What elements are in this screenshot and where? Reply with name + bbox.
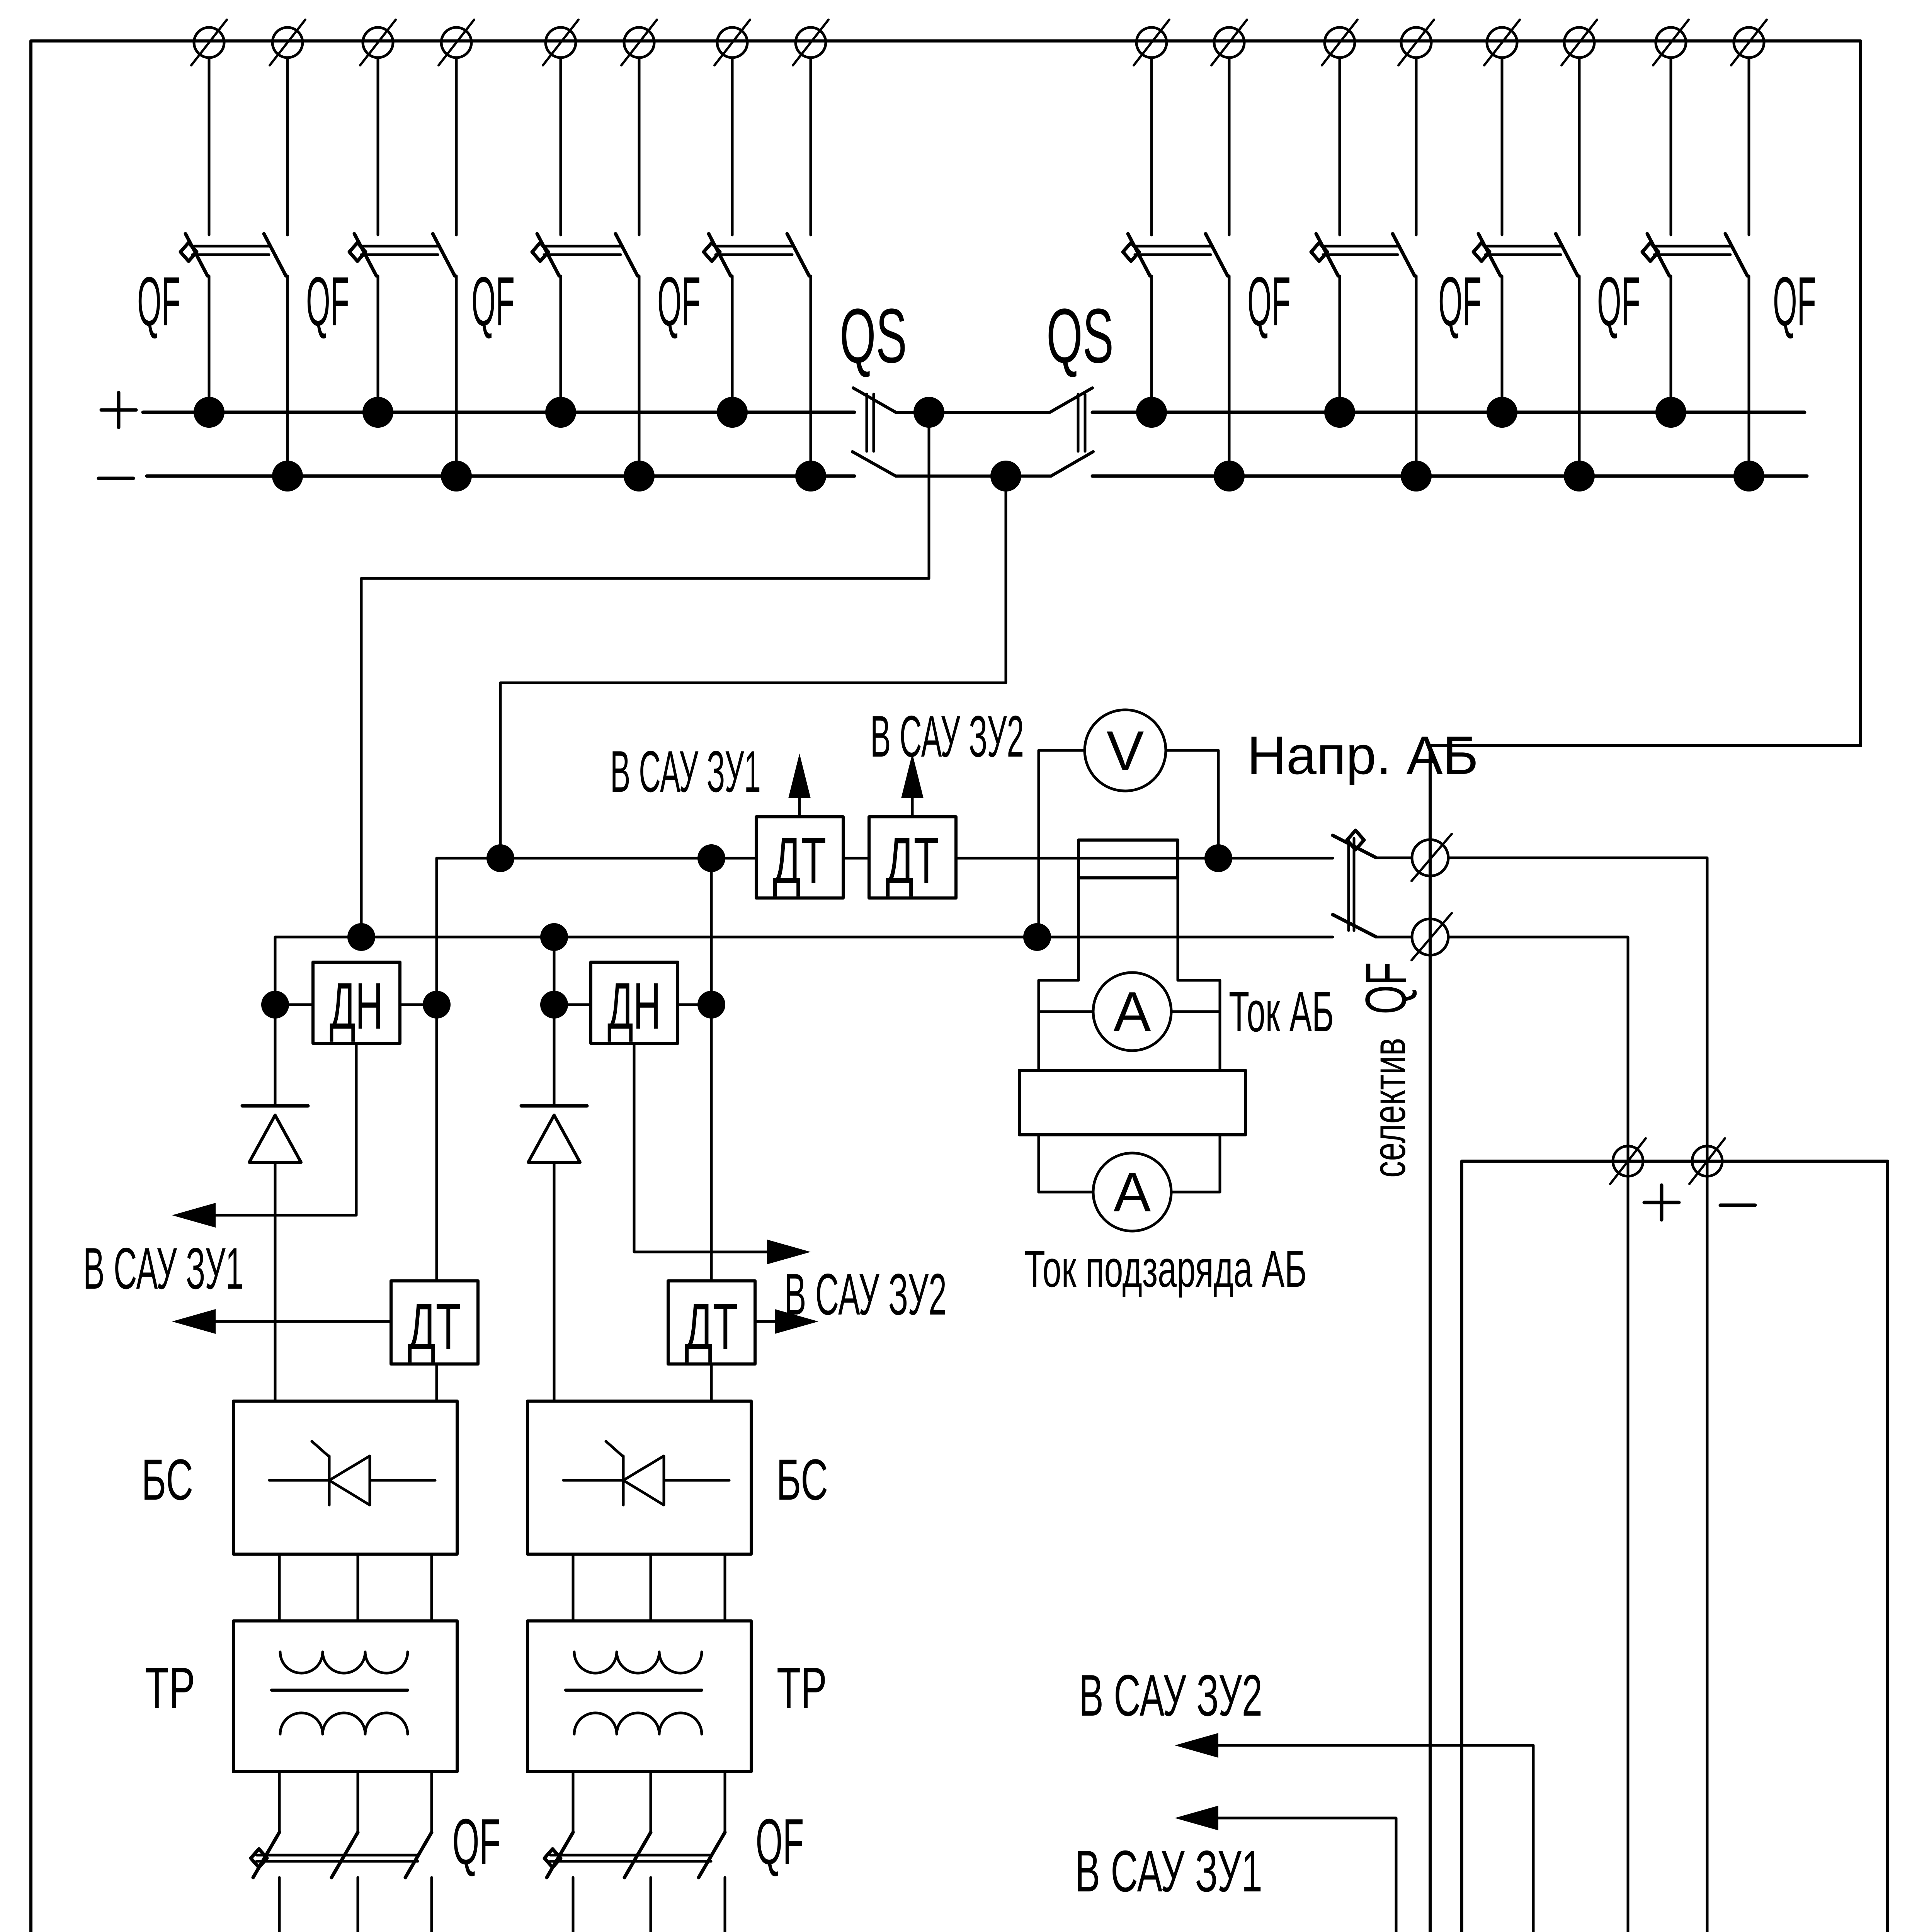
svg-text:ДН: ДН: [607, 969, 661, 1043]
svg-text:V: V: [1107, 719, 1144, 782]
ammeter A (battery current): [1039, 973, 1220, 1051]
svg-text:QF: QF: [1438, 263, 1482, 340]
terminal (outgoing line 7, + pole): [1484, 20, 1520, 65]
wire terminal to breaker (line 8 + pole): [1670, 58, 1672, 235]
wire terminal to breaker (line 6 - pole): [1415, 58, 1418, 235]
wire minus bus to charger output wire A: [500, 476, 1006, 858]
wire terminal to breaker (line 4 + pole): [731, 58, 734, 235]
minus sign of bus: [99, 477, 133, 480]
svg-text:QF: QF: [452, 1805, 501, 1878]
svg-text:QS: QS: [840, 293, 907, 379]
arrow to SAU ZU1 (lower): [172, 1309, 216, 1334]
svg-text:В САУ ЗУ1: В САУ ЗУ1: [83, 1236, 243, 1301]
wire battery plus feed: [1448, 937, 1628, 1932]
plus bus (+): [143, 411, 854, 414]
node on minus bus (line 3): [624, 461, 655, 492]
wire plus bus to charger output wire B: [361, 412, 929, 937]
wire B: charger output lower rail: [275, 936, 1333, 939]
svg-text:QS: QS: [1046, 293, 1114, 379]
svg-text:В САУ ЗУ1: В САУ ЗУ1: [610, 739, 761, 804]
circuit breaker QF (feeder 3, two-pole): [532, 234, 638, 276]
arrow to SAU ZU2 (lower): [775, 1309, 818, 1334]
node on minus bus (line 7): [1564, 461, 1595, 492]
wires breaker to AVR (charger2): [572, 1878, 575, 1932]
plus sign (battery cabinet entry): [1644, 1201, 1679, 1204]
winding primary ТР1: [280, 1652, 408, 1673]
terminal (outgoing line 7, - pole): [1561, 20, 1597, 65]
rectifier block БС1: [233, 1401, 457, 1554]
node wire B / charger2 riser: [540, 923, 568, 951]
node DN1 right lead: [423, 991, 451, 1019]
wire DT1 output left: [216, 1320, 391, 1323]
svg-text:QF: QF: [471, 263, 515, 340]
wire terminal to breaker (line 5 - pole): [1228, 58, 1231, 235]
wire breaker to plus bus (line 7): [1501, 276, 1504, 412]
svg-text:ДН: ДН: [330, 969, 383, 1043]
ammeter A (battery recharge current): [1039, 1153, 1220, 1231]
svg-text:БС: БС: [776, 1447, 828, 1512]
wire A: charger output upper rail: [437, 857, 756, 860]
minus sign (battery cabinet entry): [1720, 1204, 1755, 1207]
node DN2 left lead: [540, 991, 568, 1019]
winding primary ТР2: [574, 1652, 702, 1673]
arrow to SAU ZU1 (upper): [172, 1203, 216, 1228]
node on minus bus (line 8): [1733, 461, 1764, 492]
wire terminal to breaker (line 3 + pole): [560, 58, 562, 235]
minus bus (-): [147, 474, 854, 478]
arrow up to SAU ZU2: [901, 753, 924, 798]
wires BS1 to TR1 (3 phases): [278, 1554, 281, 1621]
wire DN2 output down: [634, 1043, 768, 1252]
wire breaker to minus bus (line 8): [1748, 276, 1750, 476]
wire breaker to plus bus (line 3): [560, 276, 562, 412]
wires BS2 to TR2 (3 phases): [572, 1554, 575, 1621]
node on minus bus (line 5): [1214, 461, 1245, 492]
terminal (outgoing line 5, + pole): [1134, 20, 1169, 65]
terminal (outgoing line 4, + pole): [714, 20, 750, 65]
node on plus bus (line 6): [1324, 397, 1355, 428]
arrow up to SAU ZU1: [788, 753, 811, 798]
rectifier block БС2: [527, 1401, 751, 1554]
node on plus bus (line 2): [362, 397, 393, 428]
core line ТР2: [566, 1689, 702, 1692]
wires TR2 to breaker: [572, 1772, 575, 1832]
svg-text:ДТ: ДТ: [408, 1290, 461, 1364]
wire voltmeter right lead: [1166, 750, 1218, 858]
wire DT up to arrow: [911, 797, 914, 817]
wire terminal to breaker (line 4 - pole): [810, 58, 812, 235]
wire terminal to breaker (line 5 + pole): [1150, 58, 1153, 235]
svg-text:QF: QF: [756, 1805, 804, 1878]
svg-text:QF: QF: [1597, 263, 1640, 340]
wire voltmeter left lead: [1039, 750, 1085, 937]
svg-text:ДТ: ДТ: [773, 824, 826, 898]
wire breaker to plus bus (line 4): [731, 276, 734, 412]
transformer ТР1: [233, 1621, 457, 1772]
wire breaker to plus bus (line 2): [377, 276, 379, 412]
terminal (outgoing line 3, + pole): [543, 20, 578, 65]
terminal (outgoing line 2, + pole): [360, 20, 396, 65]
node DN1 left lead: [261, 991, 289, 1019]
node on plus bus (line 7): [1487, 397, 1517, 428]
terminal (outgoing line 1, - pole): [270, 20, 305, 65]
node on plus bus (line 4): [717, 397, 748, 428]
wire terminal to breaker (line 7 + pole): [1501, 58, 1504, 235]
wire battery minus feed: [1448, 858, 1707, 1932]
wire breaker to minus bus (line 1): [286, 276, 289, 476]
wire breaker to plus bus (line 1): [208, 276, 211, 412]
svg-text:QF: QF: [1353, 962, 1418, 1014]
wires breaker to AVR (charger1): [278, 1878, 281, 1932]
wire breaker to minus bus (line 5): [1228, 276, 1231, 476]
svg-text:QF: QF: [1247, 263, 1291, 340]
terminal (outgoing line 5, - pole): [1211, 20, 1247, 65]
terminal (outgoing line 8, + pole): [1653, 20, 1689, 65]
terminal (outgoing line 6, - pole): [1398, 20, 1434, 65]
wire breaker to minus bus (line 7): [1578, 276, 1581, 476]
terminal (outgoing line 2, - pole): [439, 20, 474, 65]
node wire A / charger2 riser: [697, 844, 725, 872]
current sensor DT (wire A, charger1 SAU): [756, 817, 843, 898]
arrow to SAU ZU1 (right side): [1175, 1806, 1218, 1830]
terminal (outgoing line 1, + pole): [191, 20, 227, 65]
svg-text:ДТ: ДТ: [886, 824, 939, 898]
terminal (outgoing line 8, - pole): [1731, 20, 1767, 65]
shunt resistor (measuring shunt): [1019, 1070, 1245, 1135]
thyristor inside БС1: [269, 1441, 435, 1505]
node wire B / plus-bus drop: [347, 923, 375, 951]
cabinet outline Shkaf AB (battery cabinet border): [1462, 1161, 1888, 1932]
svg-text:В САУ ЗУ1: В САУ ЗУ1: [1075, 1838, 1262, 1904]
wire breaker to plus bus (line 5): [1150, 276, 1153, 412]
transformer ТР2: [527, 1621, 751, 1772]
current sensor DT2: [668, 1281, 755, 1364]
terminal (battery cabinet, minus): [1689, 1138, 1725, 1184]
svg-text:ТР: ТР: [145, 1655, 195, 1720]
circuit breaker QF (feeder 7, two-pole): [1473, 234, 1578, 276]
circuit breaker QF (charger2 AC input, three-pole): [544, 1832, 725, 1878]
node on plus bus (line 1): [194, 397, 225, 428]
svg-text:БС: БС: [141, 1447, 193, 1512]
wire DN1 output down: [216, 1043, 356, 1215]
wire breaker to minus bus (line 6): [1415, 276, 1418, 476]
node DN2 right lead: [697, 991, 725, 1019]
disconnector QS (minus bus tie): [852, 394, 1093, 476]
diode VD2 (charger2 blocking diode): [521, 1106, 587, 1162]
svg-text:Ток подзаряда АБ: Ток подзаряда АБ: [1024, 1240, 1307, 1298]
wires fuse to ammeter branch: [1039, 878, 1078, 1070]
svg-text:ТР: ТР: [777, 1655, 827, 1720]
circuit breaker QF (feeder 2, two-pole): [349, 234, 455, 276]
node on minus bus (line 2): [441, 461, 472, 492]
wire riser charger2 left (x=1434): [553, 937, 556, 1106]
node on plus bus (line 5): [1136, 397, 1167, 428]
wire terminal to breaker (line 7 - pole): [1578, 58, 1581, 235]
svg-text:QF: QF: [1773, 263, 1816, 340]
terminal (battery cabinet, plus): [1610, 1138, 1646, 1184]
svg-text:В САУ ЗУ2: В САУ ЗУ2: [1079, 1663, 1262, 1728]
wire DT2 output right: [755, 1320, 775, 1323]
node wire A / voltmeter lead: [1204, 844, 1232, 872]
wire riser charger2 right (x=1841): [710, 858, 713, 1281]
circuit breaker QF (feeder 4, two-pole): [704, 234, 809, 276]
terminal (outgoing line 4, - pole): [793, 20, 828, 65]
core line ТР1: [272, 1689, 408, 1692]
wire TS-AB lower to SAU ZU1: [1218, 1818, 1479, 1932]
wire DT up to arrow: [798, 797, 801, 817]
svg-text:В САУ ЗУ2: В САУ ЗУ2: [784, 1262, 947, 1327]
arrow to SAU ZU2 (right side): [1175, 1733, 1218, 1758]
voltage sensor DN2: [591, 962, 678, 1043]
svg-text:QF: QF: [137, 263, 180, 340]
wire terminal to breaker (line 3 - pole): [638, 58, 641, 235]
winding secondary ТР1: [280, 1713, 408, 1734]
wire terminal to breaker (line 1 + pole): [208, 58, 211, 235]
wire breaker to minus bus (line 4): [810, 276, 812, 476]
circuit breaker QF (feeder 1, two-pole): [180, 234, 286, 276]
node on minus bus (line 1): [272, 461, 303, 492]
wire terminal to breaker (line 8 - pole): [1748, 58, 1750, 235]
svg-text:А: А: [1114, 1161, 1151, 1223]
disconnector QS (plus bus tie): [853, 388, 1092, 451]
diode VD1 (charger1 blocking diode): [242, 1106, 308, 1162]
wire TS-AB upper to SAU ZU2: [1218, 1745, 1533, 1932]
svg-text:В САУ ЗУ2: В САУ ЗУ2: [870, 704, 1024, 769]
svg-text:А: А: [1114, 980, 1151, 1043]
svg-text:ДТ: ДТ: [685, 1290, 738, 1364]
arrow to SAU ZU2 (upper): [767, 1240, 811, 1264]
wire terminal to breaker (line 6 + pole): [1339, 58, 1341, 235]
terminal (battery circuit, upper): [1412, 834, 1452, 881]
wire breaker to minus bus (line 3): [638, 276, 641, 476]
voltmeter V (battery voltage): [1085, 710, 1166, 791]
current sensor DT (wire A, charger2 SAU): [869, 817, 956, 898]
terminal (outgoing line 3, - pole): [621, 20, 657, 65]
node on minus bus (line 6): [1401, 461, 1432, 492]
svg-text:Напр. АБ: Напр. АБ: [1247, 725, 1478, 786]
wire terminal to breaker (line 2 + pole): [377, 58, 379, 235]
wire riser charger1 right (x=1130): [435, 858, 438, 1281]
svg-text:QF: QF: [657, 263, 701, 340]
wire riser charger1 left (x=712): [274, 937, 277, 1106]
voltage sensor DN1: [313, 962, 400, 1043]
wire breaker to minus bus (line 2): [455, 276, 458, 476]
terminal (outgoing line 6, + pole): [1322, 20, 1357, 65]
thyristor inside БС2: [563, 1441, 729, 1505]
winding secondary ТР2: [574, 1713, 702, 1734]
wire terminal to breaker (line 2 - pole): [455, 58, 458, 235]
svg-text:QF: QF: [306, 263, 349, 340]
current sensor DT1: [391, 1281, 478, 1364]
plus sign of bus: [101, 408, 136, 412]
node wire B / voltmeter lead: [1023, 923, 1051, 951]
wire breaker to plus bus (line 6): [1339, 276, 1341, 412]
terminal (battery circuit, lower): [1412, 913, 1452, 960]
circuit breaker QF (charger1 AC input, three-pole): [251, 1832, 432, 1878]
node wire A / minus-bus drop: [486, 844, 514, 872]
wire terminal to breaker (line 1 - pole): [286, 58, 289, 235]
node on plus bus (line 8): [1655, 397, 1686, 428]
svg-text:селектив: селектив: [1363, 1038, 1415, 1178]
circuit breaker QF (feeder 6, two-pole): [1311, 234, 1415, 276]
node on plus bus (line 3): [545, 397, 576, 428]
node plus bus at QS: [913, 397, 944, 428]
wires TR1 to breaker: [278, 1772, 281, 1832]
node minus bus at QS: [990, 461, 1021, 492]
fuse FU (battery circuit): [1078, 840, 1178, 878]
circuit breaker QF (feeder 5, two-pole): [1123, 234, 1228, 276]
wires shunt to recharge ammeter: [1038, 1135, 1040, 1192]
node on minus bus (line 4): [795, 461, 826, 492]
wire breaker to plus bus (line 8): [1670, 276, 1672, 412]
svg-text:Ток АБ: Ток АБ: [1229, 980, 1334, 1044]
circuit breaker QF selective (battery, two-pole): [1333, 830, 1412, 937]
circuit breaker QF (feeder 8, two-pole): [1642, 234, 1747, 276]
